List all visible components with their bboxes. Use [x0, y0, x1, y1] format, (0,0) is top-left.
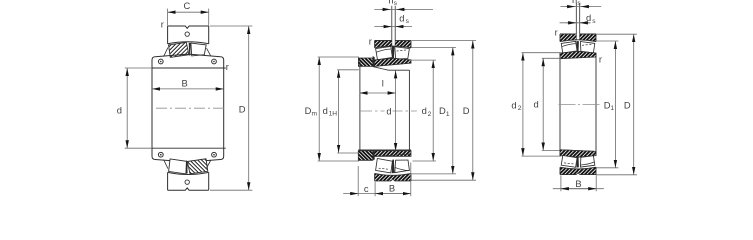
roller fig3 top-left: [561, 41, 577, 53]
inner ring top fig3 (hatched): [560, 51, 596, 58]
svg-text:B: B: [575, 178, 581, 189]
svg-text:s: s: [577, 0, 581, 7]
bore line top: [152, 67, 226, 69]
svg-text:2: 2: [518, 105, 522, 112]
dimension ds: [374, 12, 412, 26]
svg-text:D: D: [624, 99, 631, 110]
lubrication hole walls: [392, 6, 395, 46]
roller bottom-right (hatched): [187, 159, 207, 174]
outer ring bottom fig2 (hatched): [375, 174, 411, 182]
cage bar bottom: [186, 160, 188, 173]
bore line bottom: [152, 147, 226, 149]
centerline fig2: [359, 110, 417, 112]
svg-text:r: r: [555, 26, 558, 37]
inner ring outline: [152, 54, 224, 162]
dimension Dm: [305, 57, 359, 161]
dimension D1 fig3: [596, 41, 618, 168]
cage edge top-left: [164, 48, 168, 57]
outer ring top fig3 (hatched): [560, 34, 596, 42]
svg-text:1: 1: [610, 105, 614, 112]
roller fig3 bottom-right: [580, 156, 594, 167]
roller fig2 bottom-right: [395, 160, 410, 173]
outer ring top: [168, 26, 209, 44]
bore outline fig2: [358, 58, 411, 160]
cage bar fig2 bottom: [392, 160, 395, 174]
svg-text:s: s: [394, 0, 398, 7]
svg-text:1H: 1H: [329, 111, 338, 118]
sleeve junction bar top: [373, 56, 375, 67]
centerline axis: [156, 107, 227, 109]
dimension C: [168, 0, 209, 26]
lubrication hole bottom: [185, 180, 189, 184]
svg-text:2: 2: [428, 111, 432, 118]
adapter sleeve bottom-left (hatched): [358, 151, 373, 161]
svg-text:s: s: [406, 18, 410, 25]
cage bar fig3 bottom: [576, 156, 579, 167]
bore fig3: [560, 53, 596, 156]
rivet top-left: [158, 59, 163, 64]
svg-text:B: B: [389, 183, 395, 194]
inner ring bottom fig2 (hatched): [373, 151, 411, 157]
cage edge top-right: [207, 48, 211, 56]
adapter sleeve top-left (hatched): [358, 58, 372, 66]
lubrication hole top: [185, 32, 189, 36]
outer ring top fig2 (hatched): [375, 41, 411, 48]
dimension c and B fig2: [343, 163, 411, 197]
inner ring bottom fig3 (hatched): [560, 150, 596, 157]
sleeve junction bar bottom: [373, 151, 375, 161]
svg-text:l: l: [382, 78, 384, 89]
svg-text:d: d: [511, 99, 516, 110]
rivet bottom-left: [158, 152, 163, 157]
roller fig2 top-left: [376, 47, 393, 60]
dimension d: [117, 68, 152, 148]
roller bottom-left: [169, 159, 188, 174]
sleeve edge lines top: [373, 67, 410, 71]
sleeve taper line bottom: [375, 154, 411, 156]
roller fig3 bottom-left (dashed): [561, 156, 577, 168]
svg-text:D: D: [463, 105, 470, 116]
roller top-right: [191, 43, 206, 56]
dimension hs (cut by top edge): [374, 0, 433, 9]
roller fig2 bottom-left (dashed): [376, 159, 393, 173]
rivet bottom-right: [212, 152, 217, 157]
svg-text:d: d: [586, 12, 591, 23]
dimension d fig3: [533, 58, 560, 150]
cage bar top: [189, 43, 191, 56]
outer ring bottom: [168, 172, 209, 190]
dimension B: [152, 78, 224, 89]
svg-text:C: C: [184, 0, 191, 11]
dimension D: [210, 26, 252, 190]
dimension D fig2: [412, 41, 477, 181]
svg-text:d: d: [386, 105, 391, 116]
outer ring bottom fig3 (hatched): [560, 167, 596, 175]
svg-text:D: D: [239, 103, 246, 114]
svg-text:s: s: [592, 18, 596, 25]
roller top-left (hatched): [169, 42, 189, 57]
cage edge bottom-left: [164, 160, 168, 169]
svg-text:r: r: [369, 35, 372, 46]
svg-text:d: d: [422, 105, 427, 116]
svg-text:d: d: [323, 105, 328, 116]
dimension d1H: [323, 70, 359, 153]
svg-text:r: r: [161, 18, 164, 29]
svg-text:d: d: [399, 12, 404, 23]
rivet top-right: [212, 59, 217, 64]
dimension d2 fig3: [511, 53, 561, 156]
svg-text:B: B: [181, 78, 187, 89]
svg-text:r: r: [226, 61, 229, 72]
centerline fig3: [559, 103, 601, 105]
svg-text:d: d: [117, 105, 122, 116]
svg-text:m: m: [312, 111, 318, 118]
dimension l: [360, 78, 396, 93]
dimension d2 fig2: [412, 60, 437, 161]
cage bar fig3 top: [576, 41, 579, 52]
svg-text:r: r: [599, 53, 602, 64]
roller fig3 top-right (dashed): [580, 42, 594, 53]
dimension hs fig3 (cut): [560, 0, 601, 7]
dimension ds fig3: [560, 12, 597, 25]
svg-text:1: 1: [446, 111, 450, 118]
svg-text:c: c: [364, 183, 369, 194]
dimension D fig3: [596, 34, 637, 175]
cage edge bottom-right: [207, 160, 211, 168]
lubrication hole walls fig3: [576, 3, 579, 40]
dimension D1 fig2: [412, 47, 457, 173]
dimension B fig3: [553, 175, 604, 191]
dimension d fig2: [386, 70, 395, 151]
svg-text:d: d: [533, 99, 538, 110]
inner ring top fig2 (hatched): [373, 58, 411, 66]
cage bar fig2 top: [392, 46, 395, 60]
roller fig2 top-right (dashed): [395, 47, 410, 59]
